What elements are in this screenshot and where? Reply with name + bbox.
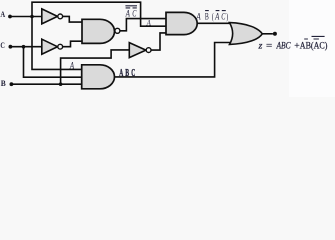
inverter I1 (input A)	[42, 9, 63, 24]
wire A down branch to AND3 top input	[32, 17, 82, 70]
label A Bbar (Abar Cbar)	[196, 11, 229, 23]
svg-text:A: A	[69, 61, 75, 72]
label (A bar C bar) nand output	[125, 6, 137, 20]
wire A input to inverter	[10, 16, 42, 18]
wire C input to inverter	[10, 46, 41, 48]
node C junction	[22, 45, 26, 49]
svg-text:B: B	[205, 12, 209, 22]
AND gate G2	[166, 12, 197, 34]
inverter I3 (input B)	[129, 43, 151, 58]
svg-text:B: B	[1, 78, 6, 88]
svg-text:A: A	[125, 10, 130, 20]
svg-text:ABC: ABC	[276, 40, 291, 51]
wire NAND output to AND2 top input	[120, 19, 166, 31]
svg-text:A: A	[146, 17, 152, 27]
svg-text:AB(AC): AB(AC)	[300, 40, 328, 51]
node B	[1, 78, 14, 88]
wire G3 output to OR bottom input	[115, 43, 235, 77]
wire C down branch to AND3 middle input	[24, 47, 82, 77]
node z output dot	[273, 32, 277, 36]
NAND gate G1	[82, 19, 120, 43]
wire I1 output to NAND top input	[63, 16, 82, 22]
label z = ABC + ABbar(AbarCbar)	[257, 36, 327, 51]
label A B C	[119, 68, 135, 79]
svg-text:A: A	[214, 12, 219, 22]
wire B up branch to inverter I3	[61, 50, 130, 84]
wire B input to AND3 bottom input	[11, 83, 81, 85]
wire I3 output to AND2 bottom input	[151, 33, 166, 50]
svg-text:A: A	[0, 9, 5, 19]
node A junction	[30, 15, 34, 19]
node C	[0, 40, 12, 50]
node B junction	[59, 82, 63, 86]
svg-text:(: (	[212, 11, 214, 22]
svg-text:=: =	[266, 40, 273, 51]
svg-text:C: C	[132, 10, 137, 20]
svg-text:): )	[226, 11, 228, 22]
wire OR output	[262, 33, 273, 35]
wire A top rail to AND2 middle input	[32, 2, 166, 26]
svg-text:A: A	[196, 12, 201, 22]
node A	[0, 9, 12, 19]
wire I2 output to NAND bottom input	[63, 41, 82, 47]
OR gate G4	[230, 23, 263, 45]
svg-text:C: C	[0, 40, 5, 50]
svg-text:z: z	[257, 40, 262, 51]
AND gate G3 (ABC)	[82, 65, 115, 89]
wire G2 output to OR top input	[197, 22, 234, 24]
inverter I2 (input C)	[42, 39, 63, 54]
